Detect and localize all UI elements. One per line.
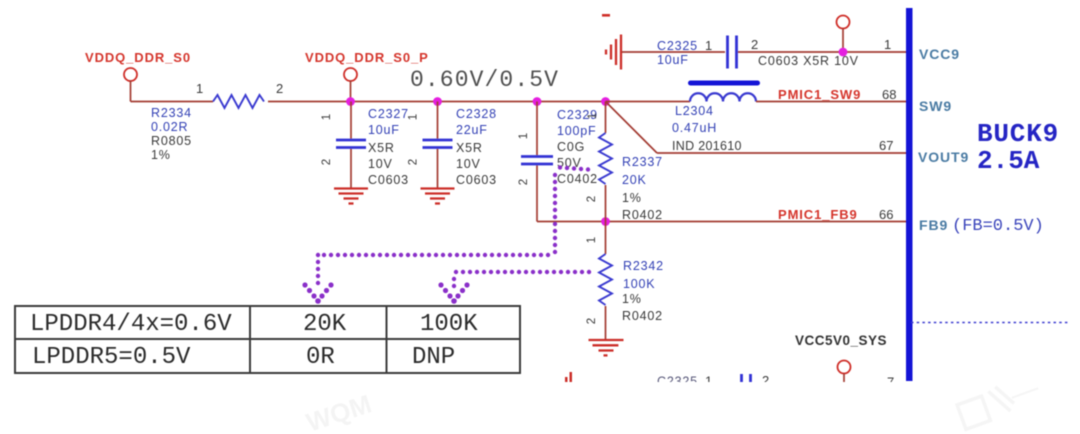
wire diagonal VOUT (606, 102, 658, 154)
capacitor C2328 (423, 102, 453, 188)
wire port stub (350, 81, 352, 102)
resistor R2337 (599, 102, 612, 222)
svg-text:L2304: L2304 (675, 104, 714, 118)
value label L2304 (672, 104, 742, 153)
svg-text:1: 1 (586, 237, 598, 243)
node junction R2337 bottom (601, 217, 610, 226)
table text row1 (30, 311, 478, 338)
wire port stub (843, 374, 845, 383)
svg-text:PMIC1_FB9: PMIC1_FB9 (778, 207, 858, 222)
purple arrowhead to 100K (438, 282, 469, 303)
ground C2327 (334, 189, 368, 204)
svg-text:2: 2 (321, 159, 333, 165)
svg-text:2.5A: 2.5A (977, 146, 1040, 176)
svg-text:100K: 100K (623, 277, 655, 291)
dashed stub line (911, 322, 1068, 324)
svg-text:C0402: C0402 (557, 172, 598, 186)
value label C2325 (657, 39, 698, 67)
purple dotted link R2337 to table (316, 165, 590, 285)
svg-text:VCC5V0_SYS: VCC5V0_SYS (795, 333, 887, 348)
inductor L2304 core bar (688, 81, 760, 86)
capacitor C2325b fragment (742, 374, 751, 390)
svg-text:1%: 1% (622, 191, 642, 205)
port VCC5V0_SYS (838, 361, 851, 374)
svg-text:C2327: C2327 (368, 107, 409, 121)
svg-text:R2342: R2342 (623, 259, 664, 273)
svg-text:1: 1 (705, 38, 712, 53)
svg-text:2: 2 (586, 318, 598, 324)
svg-text:20K: 20K (622, 173, 647, 187)
svg-text:2: 2 (586, 196, 598, 202)
svg-text:R2334: R2334 (151, 106, 192, 120)
ground C2328 (421, 189, 455, 204)
ground fragment bottom (565, 377, 568, 382)
svg-text:X5R: X5R (368, 141, 395, 155)
svg-text:20K: 20K (303, 311, 347, 338)
svg-text:DNP: DNP (412, 344, 455, 371)
svg-text:2: 2 (408, 159, 420, 165)
svg-text:C2325: C2325 (657, 39, 698, 53)
svg-text:VOUT9: VOUT9 (918, 149, 969, 165)
svg-text:10uF: 10uF (368, 123, 400, 137)
node junction R2337 top (601, 97, 610, 106)
value label R2337 (622, 155, 663, 222)
svg-text:67: 67 (879, 138, 893, 153)
svg-text:1: 1 (884, 37, 891, 52)
svg-text:BUCK9: BUCK9 (977, 119, 1059, 149)
svg-text:22uF: 22uF (456, 123, 488, 137)
wire main left (131, 101, 214, 103)
svg-text:10uF: 10uF (657, 53, 689, 67)
wire main center (268, 101, 606, 103)
value label C2327 (368, 107, 409, 187)
svg-text:C0603: C0603 (368, 173, 409, 187)
node junction C2329 (533, 97, 542, 106)
svg-text:C0603: C0603 (456, 173, 497, 187)
inductor L2304 (690, 93, 756, 101)
svg-text:R0402: R0402 (622, 309, 663, 323)
ground R2342 (589, 340, 624, 355)
table options (15, 306, 520, 373)
svg-text:LPDDR4/4x=0.6V: LPDDR4/4x=0.6V (30, 311, 232, 338)
svg-text:1: 1 (587, 113, 599, 119)
capacitor C2325 (728, 36, 737, 69)
svg-text:68: 68 (882, 87, 896, 102)
svg-text:1: 1 (196, 81, 203, 96)
svg-text:R0805: R0805 (151, 134, 192, 148)
tiny red mark top (602, 14, 610, 17)
svg-text:FB9: FB9 (919, 217, 948, 233)
svg-text:10V: 10V (456, 157, 481, 171)
svg-text:0.47uH: 0.47uH (672, 121, 717, 135)
watermark left (303, 389, 375, 434)
resistor R2334 (213, 95, 264, 108)
value label R2334 (151, 106, 192, 162)
value label C2328 (456, 107, 497, 187)
node junction VCC9 (839, 48, 848, 57)
svg-text:X5R: X5R (456, 141, 483, 155)
value label R2342 (622, 259, 664, 323)
wire C2325 right (738, 51, 908, 53)
node junction VDDQ_DDR_S0_P (346, 97, 355, 106)
svg-text:0.60V/0.5V: 0.60V/0.5V (410, 67, 559, 93)
svg-text:VDDQ_DDR_S0_P: VDDQ_DDR_S0_P (305, 50, 429, 65)
svg-text:66: 66 (879, 207, 893, 222)
watermark right (956, 373, 1043, 429)
port VDDQ_DDR_S0_P (344, 68, 357, 81)
wire port stub (130, 81, 132, 102)
svg-text:10V: 10V (368, 157, 393, 171)
wire VOUT horizontal (657, 152, 908, 154)
svg-text:1%: 1% (622, 292, 642, 306)
port VDDQ_DDR_S0 (124, 68, 137, 81)
svg-text:C2328: C2328 (456, 107, 497, 121)
IC edge bar PMIC1 (906, 8, 913, 381)
svg-text:1%: 1% (151, 148, 171, 162)
svg-text:1: 1 (321, 114, 333, 120)
purple dotted link R2342 to table (452, 270, 591, 288)
svg-text:VCC9: VCC9 (919, 46, 960, 62)
svg-text:SW9: SW9 (919, 98, 952, 114)
svg-text:0R: 0R (306, 344, 335, 371)
port VCC9 rail (837, 16, 850, 29)
svg-text:2: 2 (518, 179, 530, 185)
table text row2 (32, 344, 455, 371)
svg-text:PMIC1_SW9: PMIC1_SW9 (778, 87, 861, 102)
svg-text:2: 2 (751, 37, 758, 52)
wire port stub (842, 29, 844, 53)
svg-text:2: 2 (276, 81, 283, 96)
ground C2325 (rotated) (606, 35, 621, 70)
value label C2329 (557, 108, 598, 186)
svg-text:VDDQ_DDR_S0: VDDQ_DDR_S0 (85, 50, 191, 65)
svg-text:0.02R: 0.02R (151, 120, 188, 134)
node junction C2328 (433, 97, 442, 106)
svg-text:100K: 100K (420, 311, 478, 338)
wire C2325 left (622, 51, 725, 53)
wire FB horizontal (537, 221, 908, 223)
svg-text:1: 1 (408, 114, 420, 120)
wire SW left (606, 101, 691, 103)
resistor R2342 (599, 222, 612, 341)
svg-text:IND 201610: IND 201610 (672, 139, 742, 153)
svg-text:C0G: C0G (557, 140, 585, 154)
svg-text:R2337: R2337 (622, 155, 663, 169)
capacitor C2329 (521, 102, 553, 222)
svg-text:R0402: R0402 (622, 208, 663, 222)
bottom clipped row (565, 372, 894, 390)
svg-text:1: 1 (518, 133, 530, 139)
svg-text:LPDDR5=0.5V: LPDDR5=0.5V (32, 344, 191, 371)
svg-text:(FB=0.5V): (FB=0.5V) (952, 217, 1044, 236)
capacitor C2327 (336, 102, 366, 188)
svg-text:100pF: 100pF (557, 124, 596, 138)
wire SW right (756, 101, 908, 103)
purple arrowhead to 20K (302, 282, 333, 303)
